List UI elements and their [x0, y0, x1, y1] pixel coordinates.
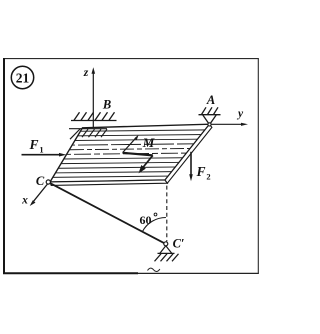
- svg-text:y: y: [236, 108, 244, 120]
- svg-text:A: A: [206, 93, 215, 107]
- svg-text:60: 60: [140, 213, 152, 227]
- svg-text:M: M: [142, 135, 155, 150]
- svg-text:x: x: [21, 195, 28, 207]
- svg-text:F: F: [28, 137, 38, 152]
- svg-text:B: B: [102, 98, 111, 112]
- svg-text:2: 2: [206, 172, 210, 182]
- svg-text:21: 21: [16, 70, 30, 85]
- svg-text:C: C: [36, 174, 45, 188]
- svg-text:z: z: [83, 67, 89, 79]
- svg-text:1: 1: [39, 145, 43, 155]
- svg-text:F: F: [195, 164, 205, 179]
- svg-text:C′: C′: [173, 237, 185, 251]
